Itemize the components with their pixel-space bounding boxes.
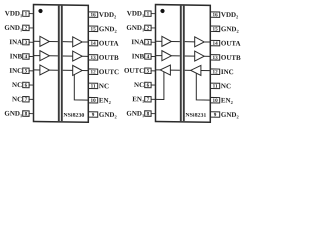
- pin 11 NC (right side, box+number+label): [89, 82, 110, 90]
- wire output NSi8231 channel B: [204, 55, 210, 57]
- svg-text:4: 4: [25, 54, 28, 60]
- svg-text:NC: NC: [12, 81, 22, 89]
- pin 11 NC (right side, box+number+label): [211, 82, 232, 90]
- svg-text:12: 12: [213, 69, 219, 75]
- svg-text:3: 3: [147, 40, 150, 46]
- pin 10 EN2 (right side, box+number+label): [211, 96, 233, 105]
- wire NSi8231 channel A from barrier: [185, 41, 195, 43]
- pin 5 INC (left side, box+stub+number+label): [9, 67, 33, 75]
- pin 14 OUTA (right side, box+number+label): [211, 39, 241, 47]
- svg-text:8: 8: [25, 111, 28, 117]
- svg-text:15: 15: [91, 26, 97, 32]
- pin 3 INA (left side, box+stub+number+label): [9, 38, 33, 46]
- wire input NSi8231 channel C (INC): [201, 70, 210, 72]
- pin 4 INB (left side, box+stub+number+label): [132, 52, 156, 60]
- isolation barrier line 1: [180, 6, 182, 122]
- svg-text:GND2: GND2: [221, 111, 239, 120]
- svg-text:7: 7: [25, 97, 28, 103]
- svg-text:GND2: GND2: [99, 111, 117, 120]
- svg-text:INA: INA: [9, 38, 22, 46]
- wire input NSi8231 channel A: [156, 40, 162, 42]
- buffer NSi8230 channel C output side (triangle pointing right): [73, 65, 83, 75]
- svg-text:GND2: GND2: [221, 25, 239, 34]
- pin 8 GND1 (left side, box+stub+number+label): [126, 109, 155, 118]
- svg-text:VDD1: VDD1: [5, 9, 22, 18]
- wire input NSi8231 channel B: [156, 55, 162, 57]
- pin 15 GND2 (right side, box+number+label): [211, 25, 239, 34]
- pin 12 OUTC (right side, box+number+label): [89, 68, 120, 76]
- svg-text:13: 13: [91, 55, 97, 61]
- wire output NSi8231 channel A: [204, 41, 210, 43]
- svg-text:GND1: GND1: [126, 24, 144, 33]
- svg-text:12: 12: [91, 69, 97, 75]
- svg-text:7: 7: [147, 97, 150, 103]
- IC NSi8231 group: [124, 4, 241, 123]
- buffer NSi8231 channel C input side (triangle pointing left): [191, 65, 201, 75]
- wire output NSi8231 channel C (OUTC): [156, 69, 161, 71]
- buffer NSi8230 channel B input side (triangle pointing right): [40, 51, 50, 61]
- wire output NSi8230 channel A: [82, 41, 88, 43]
- svg-text:INB: INB: [10, 52, 23, 60]
- pin 1 VDD1 (left side, box+stub+number+label): [5, 9, 34, 18]
- wire NSi8230 channel B from barrier: [63, 55, 73, 57]
- svg-text:OUTB: OUTB: [221, 54, 241, 62]
- svg-text:13: 13: [213, 55, 219, 61]
- svg-text:OUTC: OUTC: [99, 68, 119, 76]
- pin 6 NC (left side, box+stub+number+label): [134, 81, 155, 89]
- svg-text:6: 6: [25, 83, 28, 89]
- svg-text:5: 5: [147, 68, 150, 74]
- svg-text:VDD2: VDD2: [99, 11, 116, 20]
- wire EN1 enable net NSi8231: [156, 72, 164, 100]
- wire EN2 enable net NSi8230: [74, 75, 88, 101]
- wire NSi8230 channel A to barrier: [49, 40, 58, 42]
- svg-text:VDD1: VDD1: [127, 9, 144, 18]
- svg-text:14: 14: [91, 41, 97, 47]
- IC package body NSi8231: [156, 5, 211, 123]
- wire input NSi8230 channel B: [34, 55, 40, 57]
- svg-text:INB: INB: [132, 52, 145, 60]
- svg-text:VDD2: VDD2: [221, 11, 238, 20]
- pin 16 VDD2 (right side, box+number+label): [211, 11, 239, 20]
- wire NSi8231 channel C to barrier: [170, 69, 180, 71]
- IC package body NSi8230: [34, 5, 89, 123]
- buffer NSi8231 channel C output side (triangle pointing left): [160, 65, 170, 75]
- svg-text:INC: INC: [221, 68, 234, 76]
- svg-text:2: 2: [25, 26, 28, 32]
- svg-text:GND1: GND1: [4, 109, 22, 118]
- wire NSi8230 channel B to barrier: [49, 55, 58, 57]
- svg-text:OUTA: OUTA: [221, 39, 241, 47]
- wire NSi8230 channel C from barrier: [63, 69, 73, 71]
- svg-text:OUTC: OUTC: [124, 67, 144, 75]
- pin 13 OUTB (right side, box+number+label): [89, 54, 120, 62]
- pin-1 marker dot: [160, 9, 164, 13]
- svg-text:4: 4: [147, 54, 150, 60]
- wire NSi8231 channel B from barrier: [185, 55, 195, 57]
- buffer NSi8231 channel A output side (triangle pointing right): [195, 37, 205, 47]
- pin 7 EN1 (left side, box+stub+number+label): [132, 95, 155, 104]
- svg-text:16: 16: [91, 12, 97, 18]
- svg-text:9: 9: [214, 112, 217, 118]
- svg-text:15: 15: [213, 26, 219, 32]
- svg-text:9: 9: [92, 112, 95, 118]
- pin 13 OUTB (right side, box+number+label): [211, 54, 242, 62]
- svg-text:OUTB: OUTB: [99, 54, 119, 62]
- wire input NSi8230 channel C: [34, 69, 40, 71]
- pin 4 INB (left side, box+stub+number+label): [10, 52, 34, 60]
- pin 6 NC (left side, box+stub+number+label): [12, 81, 33, 89]
- svg-text:3: 3: [25, 40, 28, 46]
- pin 1 VDD1 (left side, box+stub+number+label): [127, 9, 156, 18]
- svg-text:6: 6: [147, 83, 150, 89]
- isolation barrier line 2: [61, 6, 63, 122]
- pin 3 INA (left side, box+stub+number+label): [131, 38, 155, 46]
- pin 16 VDD2 (right side, box+number+label): [89, 11, 117, 20]
- wire output NSi8230 channel C: [82, 70, 88, 72]
- svg-text:5: 5: [25, 68, 28, 74]
- pin 8 GND1 (left side, box+stub+number+label): [4, 109, 33, 118]
- buffer NSi8230 channel B output side (triangle pointing right): [73, 51, 83, 61]
- svg-text:11: 11: [213, 84, 218, 90]
- svg-text:16: 16: [213, 12, 219, 18]
- buffer NSi8231 channel A input side (triangle pointing right): [162, 36, 172, 46]
- pin 5 OUTC (left side, box+stub+number+label): [124, 67, 156, 75]
- isolation barrier line 2: [183, 6, 185, 122]
- buffer NSi8231 channel B output side (triangle pointing right): [195, 51, 205, 61]
- wire EN2 enable net NSi8231: [196, 73, 210, 100]
- pin 7 NC (left side, box+stub+number+label): [12, 95, 33, 103]
- svg-text:NSi8231: NSi8231: [185, 112, 206, 118]
- pin 2 GND1 (left side, box+stub+number+label): [126, 24, 155, 33]
- svg-text:GND1: GND1: [4, 24, 22, 33]
- svg-text:GND1: GND1: [126, 109, 144, 118]
- svg-text:14: 14: [213, 41, 219, 47]
- pin 15 GND2 (right side, box+number+label): [89, 25, 117, 34]
- wire NSi8230 channel C to barrier: [49, 69, 58, 71]
- svg-text:10: 10: [213, 98, 219, 104]
- svg-text:GND2: GND2: [99, 25, 117, 34]
- svg-text:11: 11: [91, 84, 96, 90]
- wire NSi8231 channel A to barrier: [171, 40, 180, 42]
- buffer NSi8230 channel C input side (triangle pointing right): [40, 65, 50, 75]
- pin 2 GND1 (left side, box+stub+number+label): [4, 24, 33, 33]
- wire output NSi8230 channel B: [82, 55, 88, 57]
- svg-text:8: 8: [147, 111, 150, 117]
- svg-text:OUTA: OUTA: [99, 39, 119, 47]
- pin 10 EN2 (right side, box+number+label): [89, 96, 111, 105]
- buffer NSi8231 channel B input side (triangle pointing right): [162, 51, 172, 61]
- svg-text:1: 1: [25, 11, 28, 17]
- pin 12 INC (right side, box+number+label): [211, 68, 234, 76]
- buffer NSi8230 channel A output side (triangle pointing right): [73, 37, 83, 47]
- pin 9 GND2 (right side, box+number+label): [89, 111, 117, 120]
- svg-text:NC: NC: [134, 81, 144, 89]
- IC NSi8230 group: [4, 4, 119, 123]
- svg-text:NC: NC: [99, 82, 109, 90]
- wire NSi8231 channel C from barrier: [185, 69, 191, 71]
- svg-text:2: 2: [147, 26, 150, 32]
- pin-1 marker dot: [38, 9, 42, 13]
- pin 9 GND2 (right side, box+number+label): [211, 111, 239, 120]
- svg-text:1: 1: [147, 11, 150, 17]
- wire input NSi8230 channel A: [34, 40, 40, 42]
- svg-text:INC: INC: [9, 67, 22, 75]
- wire NSi8231 channel B to barrier: [171, 55, 180, 57]
- isolation barrier line 1: [58, 6, 60, 122]
- svg-text:NC: NC: [221, 82, 231, 90]
- buffer NSi8230 channel A input side (triangle pointing right): [40, 36, 50, 46]
- svg-text:INA: INA: [131, 38, 144, 46]
- svg-text:10: 10: [91, 98, 97, 104]
- svg-text:NC: NC: [12, 95, 22, 103]
- pin 14 OUTA (right side, box+number+label): [89, 39, 119, 47]
- svg-text:NSi8230: NSi8230: [63, 112, 84, 118]
- wire NSi8230 channel A from barrier: [63, 41, 73, 43]
